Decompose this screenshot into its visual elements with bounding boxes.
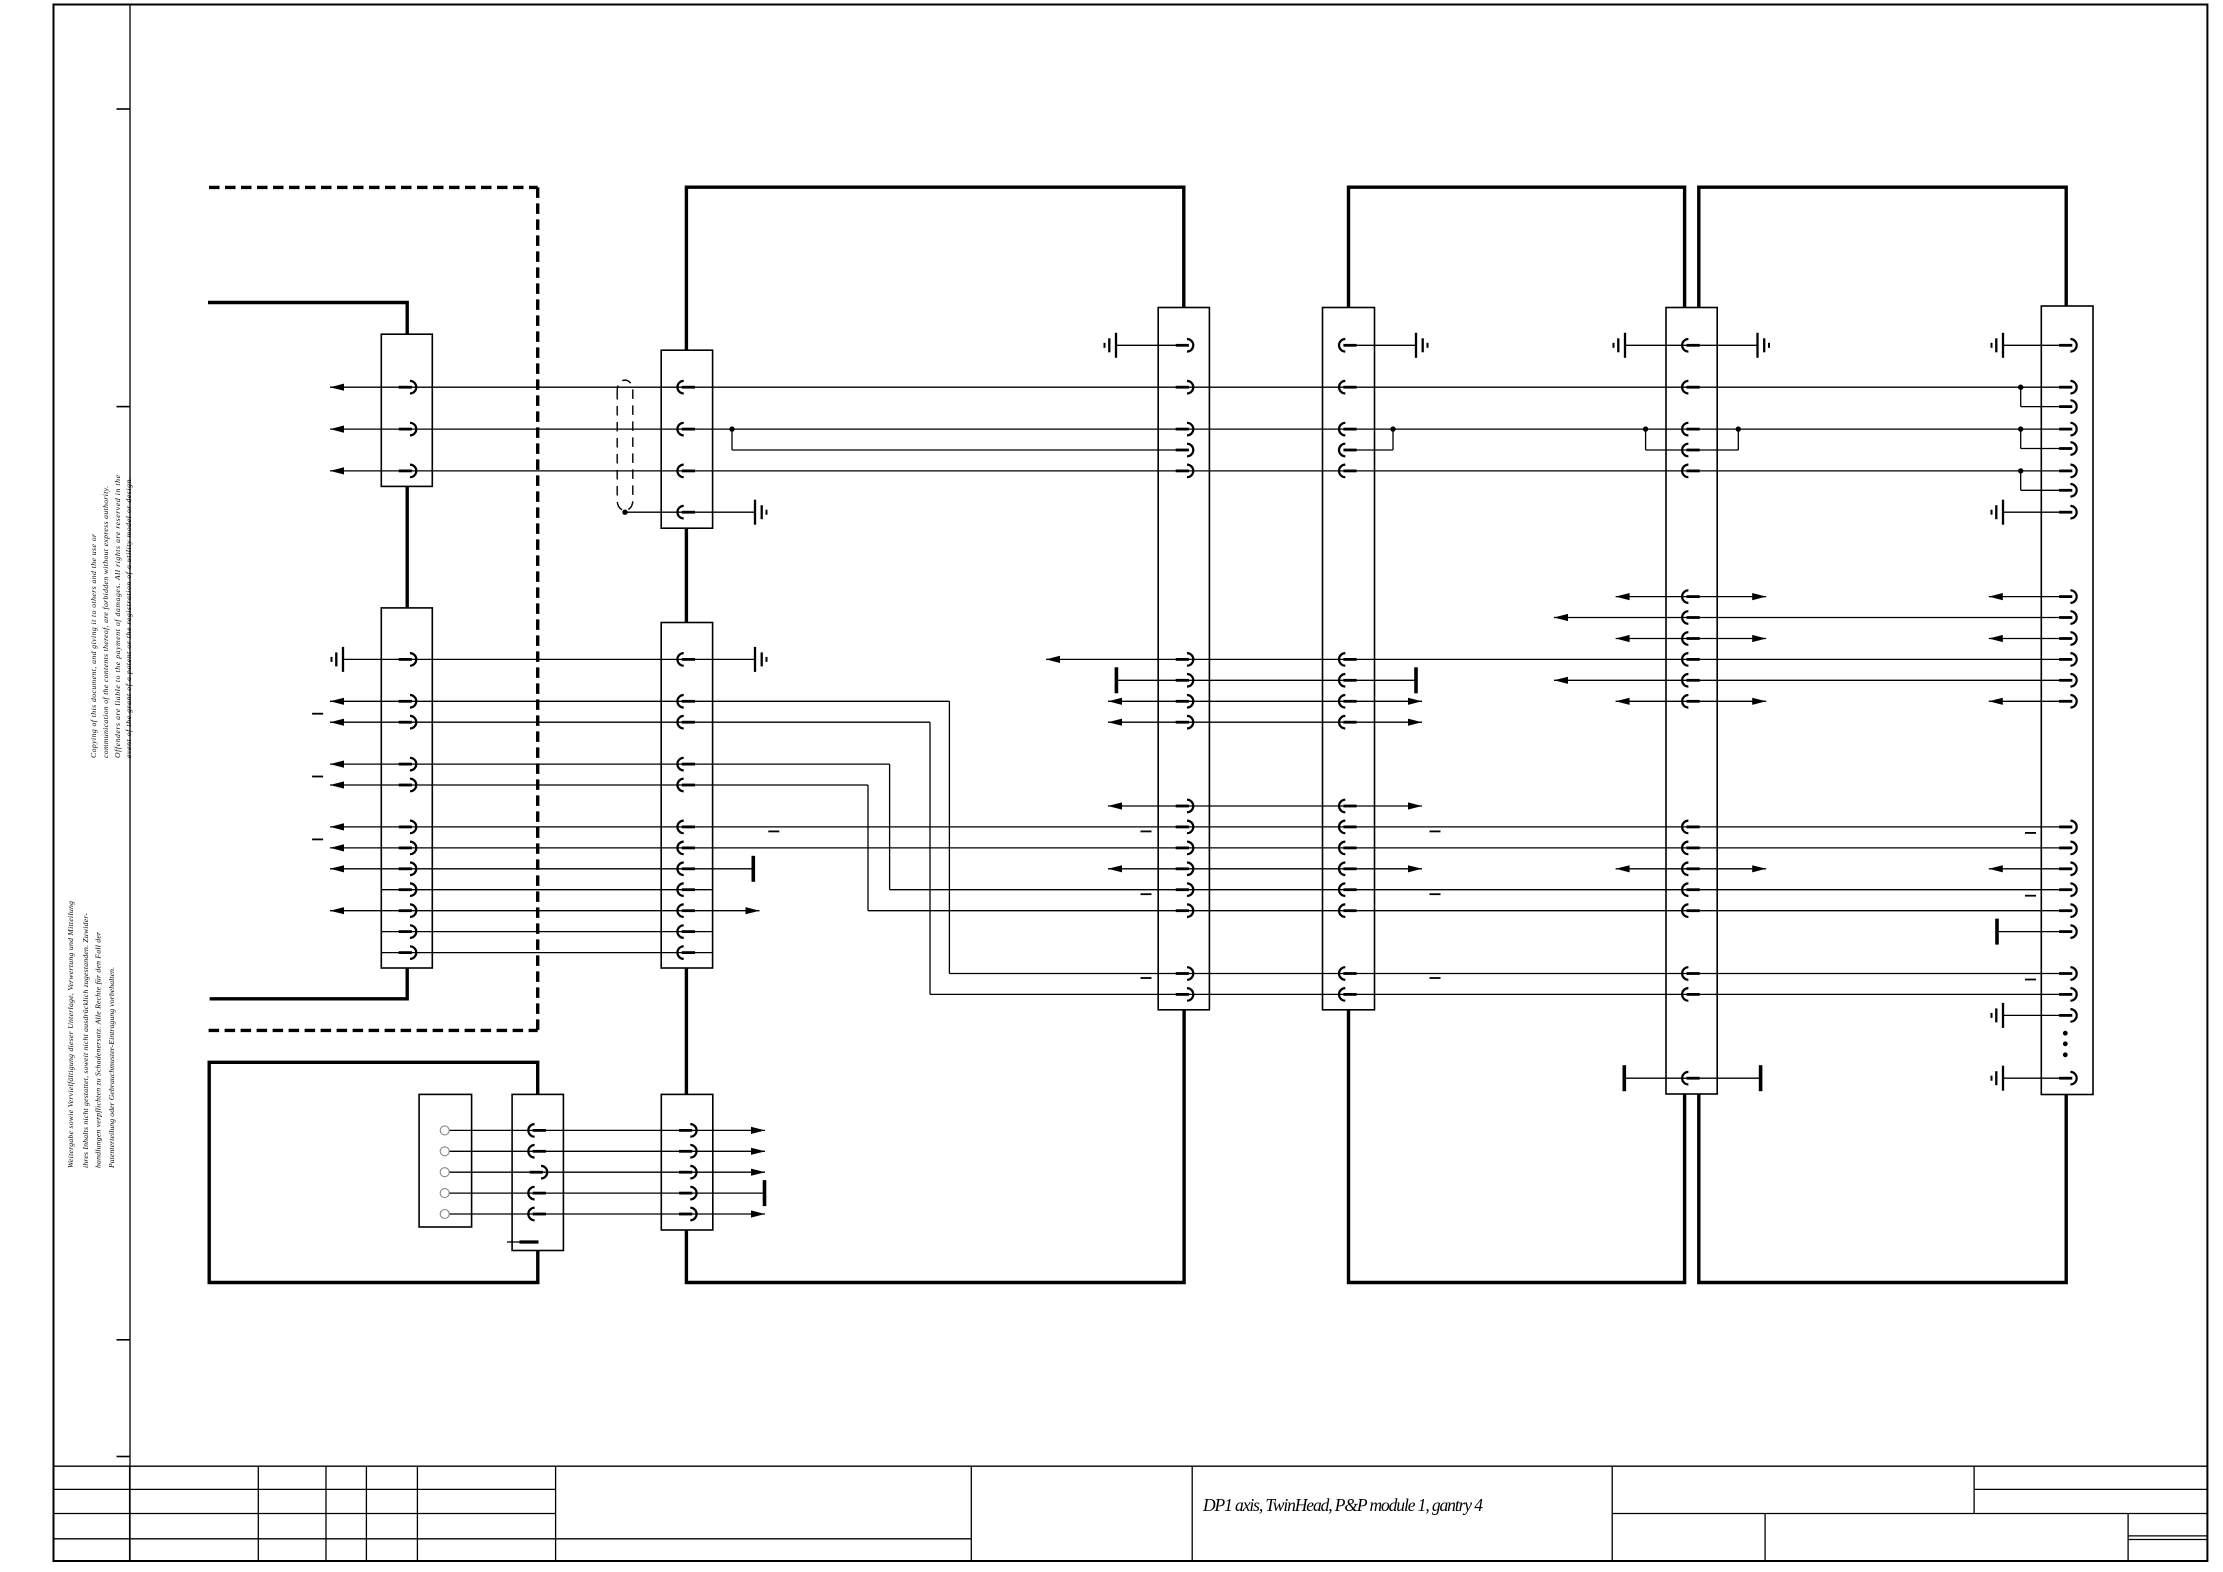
B1 pin 4 xyxy=(677,506,695,519)
D pin 8 xyxy=(1339,695,1357,708)
cable: column A bottom stub xyxy=(210,968,408,999)
wire E pin8 bidirectional xyxy=(1616,638,1767,640)
A2 pin 5 xyxy=(399,779,417,792)
A2 pin 12 xyxy=(399,946,417,959)
E pin 15 xyxy=(1682,883,1700,896)
left margin column line xyxy=(129,5,131,1562)
svg-text:Offenders are liable to the pa: Offenders are liable to the payment of d… xyxy=(113,474,122,758)
E pin 7 xyxy=(1682,611,1700,624)
svg-text:Weitergabe sowie Vervielfältig: Weitergabe sowie Vervielfältigung dieser… xyxy=(66,901,75,1168)
G pin 11 xyxy=(2059,632,2077,645)
arrow G row 638 xyxy=(1989,635,2003,642)
H pin 4 xyxy=(528,1187,546,1200)
D pin 2 xyxy=(1339,381,1357,394)
D pin 16 xyxy=(1339,967,1357,980)
C pin 1 xyxy=(1176,339,1194,352)
D pin 10 xyxy=(1339,800,1357,813)
C pin 13 xyxy=(1176,863,1194,876)
dashed enclosure bottom xyxy=(209,1029,538,1032)
arrow C row 869 xyxy=(1108,865,1122,872)
B2 pin 6 xyxy=(677,821,695,834)
PE ground A2.1 xyxy=(332,647,344,672)
branch to G pin5 xyxy=(2020,429,2022,448)
margin fold tick y=1456.5 xyxy=(117,1456,131,1458)
junction E branch right xyxy=(1736,426,1741,431)
wire G pin11 xyxy=(1989,638,2067,640)
wire tag row 827 xyxy=(2025,832,2036,834)
connector B2 (X2 lower) xyxy=(661,623,712,969)
G pin 3 xyxy=(2059,400,2077,413)
junction D branch xyxy=(1390,426,1395,431)
connector B1 (X2 upper) xyxy=(661,350,712,528)
H pin 5 xyxy=(528,1208,546,1221)
B2 pin 11 xyxy=(677,925,695,938)
PE ground G25 xyxy=(1992,1066,2004,1091)
wire valve wire 3 (I-H-J) xyxy=(449,1171,765,1173)
arrow A2 row 785 xyxy=(330,781,344,788)
A2 pin 8 xyxy=(399,863,417,876)
arrow G row 869 xyxy=(1989,865,2003,872)
E pin 9 xyxy=(1682,653,1700,666)
A2 pin 7 xyxy=(399,842,417,855)
wire net 24V row R2 (A1-B1-C-D-E-G) xyxy=(330,386,2067,388)
E pin 14 xyxy=(1682,863,1700,876)
H pin 2 xyxy=(528,1145,546,1158)
margin fold tick y=1339.8 xyxy=(117,1339,131,1341)
C pin 4 xyxy=(1176,444,1194,457)
arrow E right row 869 xyxy=(1752,865,1766,872)
connector J (X8) xyxy=(661,1094,713,1230)
arrow C6 out xyxy=(1046,656,1060,663)
arrow J row 1130 xyxy=(751,1127,765,1134)
A2 pin 6 xyxy=(399,821,417,834)
connector A1 (X1 upper) xyxy=(381,334,432,486)
PE ground E1 left xyxy=(1614,333,1626,358)
B2 pin 1 xyxy=(677,653,695,666)
branch to G pin3 xyxy=(2020,387,2022,406)
wire valve wire 2 (I-H-J) xyxy=(449,1150,765,1152)
wire A2.11-B2.11 xyxy=(381,931,712,933)
connector G (X6) xyxy=(2041,306,2093,1095)
B1 pin 3 xyxy=(677,465,695,478)
wire C8-D8 xyxy=(1108,700,1422,702)
H pin 1 xyxy=(528,1124,546,1137)
cable: stub to PLC (top-left thick line) xyxy=(208,303,407,335)
margin fold tick y=406.6 xyxy=(117,406,131,408)
C pin 17 xyxy=(1176,988,1194,1001)
C pin 14 xyxy=(1176,883,1194,896)
arrow G row 597 xyxy=(1989,593,2003,600)
D pin 12 xyxy=(1339,842,1357,855)
A2 pin 1 xyxy=(399,653,417,666)
B2 pin 2 xyxy=(677,695,695,708)
E pin 8 xyxy=(1682,632,1700,645)
B2 pin 5 xyxy=(677,779,695,792)
D pin 13 xyxy=(1339,863,1357,876)
wire E14 xyxy=(1616,868,1767,870)
cable: column B between B1 and B2 xyxy=(685,528,688,622)
B2 pin 8 xyxy=(677,863,695,876)
A1 pin 1 xyxy=(399,381,417,394)
svg-text:Patenterteilung oder Gebrauchm: Patenterteilung oder Gebrauchmuster-Eint… xyxy=(107,967,116,1169)
B2 pin 9 xyxy=(677,883,695,896)
svg-text:event of the grant of a patent: event of the grant of a patent or the re… xyxy=(124,477,133,758)
G pin 15 xyxy=(2059,821,2077,834)
wire C10-D10 xyxy=(1108,805,1422,807)
arrow D row 869 xyxy=(1408,865,1422,872)
wire E pin6 bidirectional xyxy=(1616,596,1767,598)
arrow A2 row 701 xyxy=(330,698,344,705)
connector H (X7) xyxy=(512,1094,563,1250)
arrow G row 701 xyxy=(1989,698,2003,705)
valve coil circle 3 xyxy=(440,1168,449,1177)
cap bar right of D7 xyxy=(1414,667,1418,693)
arrow A1 row 429 xyxy=(330,426,344,433)
cap bar B2.8 xyxy=(751,856,755,882)
arrow A2 row 911 xyxy=(330,907,344,914)
arrow A2 row 848 xyxy=(330,844,344,851)
A2 pin 11 xyxy=(399,925,417,938)
E pin 1 xyxy=(1682,339,1700,352)
reroute wire B2.3 down to row24 xyxy=(929,722,931,994)
C pin 3 xyxy=(1176,423,1194,436)
G pin 22 xyxy=(2059,988,2077,1001)
D pin 4 xyxy=(1339,444,1357,457)
wire A2.2-B2.2 xyxy=(330,700,949,702)
continuation dot xyxy=(2063,1031,2068,1036)
C pin 10 xyxy=(1176,800,1194,813)
J pin 4 xyxy=(679,1187,697,1200)
arrow A2 row 827 xyxy=(330,823,344,830)
G pin 7 xyxy=(2059,484,2077,497)
A2 pin 9 xyxy=(399,883,417,896)
PE ground D1 xyxy=(1416,333,1428,358)
svg-text:DP1 axis, TwinHead, P&P module: DP1 axis, TwinHead, P&P module 1, gantry… xyxy=(1202,1495,1483,1515)
cap bar right of E19 xyxy=(1759,1065,1763,1091)
reroute wire B2.5 down to row20 xyxy=(867,785,869,911)
A2 pin 2 xyxy=(399,695,417,708)
wire E19 between cap bars xyxy=(1624,1077,1760,1079)
wire C15-D14-E16-G19 xyxy=(868,910,2067,912)
E pin 13 xyxy=(1682,842,1700,855)
C pin 11 xyxy=(1176,821,1194,834)
wire G23 to PE xyxy=(2003,1014,2067,1016)
G pin 13 xyxy=(2059,674,2077,687)
C pin 12 xyxy=(1176,842,1194,855)
wire G pin9 xyxy=(1989,596,2067,598)
wire net row R3 (A1-B1-C-D-E-G) xyxy=(330,428,2067,430)
C pin 7 xyxy=(1176,674,1194,687)
arrow E long row 618 xyxy=(1554,614,1568,621)
J pin 1 xyxy=(679,1124,697,1137)
wire valve wire 1 (I-H-J) xyxy=(449,1129,765,1131)
arrow E left row 869 xyxy=(1616,865,1630,872)
D pin 5 xyxy=(1339,465,1357,478)
G pin 9 xyxy=(2059,590,2077,603)
wire G17 xyxy=(1989,868,2067,870)
cable loop B to C (top) xyxy=(686,187,1183,350)
arrow D row 701 xyxy=(1408,698,1422,705)
C pin 5 xyxy=(1176,465,1194,478)
G pin 5 xyxy=(2059,442,2077,455)
H shield bar xyxy=(520,1240,539,1243)
B2 pin 7 xyxy=(677,842,695,855)
cap bar G20 xyxy=(1995,919,1999,945)
arrow D row 722 xyxy=(1408,719,1422,726)
C pin 6 xyxy=(1176,653,1194,666)
D pin 6 xyxy=(1339,653,1357,666)
arrow A2 row 722 xyxy=(330,719,344,726)
G pin 24 xyxy=(2059,1072,2077,1085)
thick box around bottom-left unit xyxy=(209,1062,538,1282)
arrow E left row 701 xyxy=(1616,698,1630,705)
E pin 11 xyxy=(1682,695,1700,708)
PE ground E1 right xyxy=(1758,333,1770,358)
C pin 16 xyxy=(1176,967,1194,980)
PE ground G8 xyxy=(1992,500,2004,525)
cap bar left of E19 xyxy=(1623,1065,1627,1091)
G pin 8 xyxy=(2059,506,2077,519)
arrow A2 row 869 xyxy=(330,865,344,872)
wire A2.12-B2.12 xyxy=(381,952,712,954)
reroute wire B2.4 down to row19 xyxy=(889,764,891,890)
wire tag row 848 xyxy=(312,838,323,840)
J pin 2 xyxy=(679,1145,697,1158)
wire G1.1 to PE xyxy=(2003,344,2067,346)
E pin 4 xyxy=(1682,444,1700,457)
arrow A1 row 471 xyxy=(330,467,344,474)
svg-text:ihres Inhalts nicht gestattet,: ihres Inhalts nicht gestattet, soweit ni… xyxy=(81,913,90,1168)
arrow D row 806 xyxy=(1408,802,1422,809)
B2 pin 12 xyxy=(677,946,695,959)
dashed enclosure (gantry boundary) top xyxy=(209,186,538,189)
G pin 17 xyxy=(2059,863,2077,876)
E pin 19 xyxy=(1682,1072,1700,1085)
svg-text:handlungen verpflichten zu Sch: handlungen verpflichten zu Schadenersatz… xyxy=(94,931,103,1168)
wire A2.6-B2.6-C12-D11-E12-G15 xyxy=(330,826,2067,828)
G pin 10 xyxy=(2059,611,2077,624)
terminal block I (valve coils) xyxy=(419,1094,472,1227)
wire tag row 722 xyxy=(312,713,323,715)
E pin 6 xyxy=(1682,590,1700,603)
arrow E right row 638 xyxy=(1752,635,1766,642)
G pin 6 xyxy=(2059,465,2077,478)
E pin 3 xyxy=(1682,423,1700,436)
cable loop E to G (top) xyxy=(1699,187,2066,307)
connector E (X5) xyxy=(1666,308,1717,1095)
PE ground G1 xyxy=(1992,333,2004,358)
G pin 4 xyxy=(2059,423,2077,436)
PE ground shield B1.4 xyxy=(755,500,767,525)
valve coil circle 2 xyxy=(440,1147,449,1156)
B1 pin 2 xyxy=(677,423,695,436)
arrow E long row 680 xyxy=(1554,677,1568,684)
wire A2.8-B2.8 to cap bar xyxy=(330,868,753,870)
wire B2.3 rerouted to C17-D17-E18-G22 xyxy=(930,993,2067,995)
D pin 9 xyxy=(1339,716,1357,729)
wire A2.3-B2.3 xyxy=(330,721,930,723)
wire tag xyxy=(768,830,779,832)
wire A2.10-B2.10 xyxy=(330,910,760,912)
wire tag row 890 xyxy=(1141,893,1152,895)
wire tag row 890 xyxy=(1430,893,1441,895)
valve coil circle 4 xyxy=(440,1189,449,1198)
G pin 20 xyxy=(2059,925,2077,938)
wire C9-D9 xyxy=(1108,721,1422,723)
wire E11 xyxy=(1616,700,1767,702)
wire tag row 890 xyxy=(2025,895,2036,897)
C pin 2 xyxy=(1176,381,1194,394)
cable loop D to E (top) xyxy=(1349,187,1685,307)
junction B1.2 branch xyxy=(729,426,734,431)
wire tag row 974 xyxy=(1430,977,1441,979)
G pin 23 xyxy=(2059,1009,2077,1022)
valve coil circle 5 xyxy=(440,1210,449,1219)
wire G25 to PE xyxy=(2003,1077,2067,1079)
E pin 5 xyxy=(1682,465,1700,478)
arrow J row 1172 xyxy=(751,1169,765,1176)
C pin 9 xyxy=(1176,716,1194,729)
G pin 14 xyxy=(2059,695,2077,708)
cable: column B B2 down to J xyxy=(685,968,688,1094)
wire C14-D13-E15-G18 xyxy=(890,889,2068,891)
wire G14 xyxy=(1989,700,2067,702)
wire tag row 974 xyxy=(1141,977,1152,979)
wire valve wire 5 (I-H-J) xyxy=(449,1213,765,1215)
arrow E right row 701 xyxy=(1752,698,1766,705)
D pin 1 xyxy=(1339,339,1357,352)
junction G branch 2 xyxy=(2018,426,2023,431)
A2 pin 10 xyxy=(399,904,417,917)
junction E branch left xyxy=(1643,426,1648,431)
margin fold tick y=109 xyxy=(117,108,131,110)
valve coil circle 1 xyxy=(440,1126,449,1135)
junction shield oval xyxy=(622,510,627,515)
wire E pin7 - G pin10 xyxy=(1554,617,2067,619)
A2 pin 4 xyxy=(399,758,417,771)
D pin 11 xyxy=(1339,821,1357,834)
arrow E left row 597 xyxy=(1616,593,1630,600)
wire net row R4 (A1-B1-C-D-E-G) xyxy=(330,470,2067,472)
G pin 16 xyxy=(2059,842,2077,855)
D pin 3 xyxy=(1339,423,1357,436)
G pin 21 xyxy=(2059,967,2077,980)
wire cable shield to PE (B1.4) xyxy=(625,511,755,513)
J pin 3 xyxy=(679,1166,697,1179)
branch to G pin7 xyxy=(2020,471,2022,490)
arrow E right row 597 xyxy=(1752,593,1766,600)
wire A2.7-B2.7-C13-D12-E13-G16 xyxy=(330,847,2067,849)
arrow A1 row 387 xyxy=(330,384,344,391)
cap bar left of C7 xyxy=(1115,667,1119,693)
G pin 19 xyxy=(2059,904,2077,917)
D pin 17 xyxy=(1339,988,1357,1001)
A2 pin 3 xyxy=(399,716,417,729)
B1 pin 1 xyxy=(677,381,695,394)
svg-text:Copying of this document, and: Copying of this document, and giving it … xyxy=(89,533,98,758)
C pin 8 xyxy=(1176,695,1194,708)
junction G branch 3 xyxy=(2018,468,2023,473)
wire E1.1 PE-PE xyxy=(1625,344,1758,346)
wire C7-D7 between T bars xyxy=(1116,679,1416,681)
connector A2 (X1 lower) xyxy=(381,608,432,968)
arrow J row 1151 xyxy=(751,1148,765,1155)
cable loop D to E (bottom) xyxy=(1349,1010,1685,1283)
D pin 14 xyxy=(1339,883,1357,896)
connector D (X4) xyxy=(1323,308,1375,1010)
wire tag row 785 xyxy=(312,776,323,778)
C pin 15 xyxy=(1176,904,1194,917)
wire tag row 827 xyxy=(1141,830,1152,832)
branch to C pin4 xyxy=(731,429,733,450)
branch through E pin4 xyxy=(1645,429,1647,450)
PE ground B2.1 xyxy=(755,647,767,672)
wire C1.1 to PE xyxy=(1116,344,1184,346)
cable loop J to C (bottom) xyxy=(686,1010,1184,1283)
wire C6-D6-E9-G12 xyxy=(1046,658,2067,660)
E pin 10 xyxy=(1682,674,1700,687)
H pin 3 xyxy=(530,1166,548,1179)
cable: X1 column A between connectors xyxy=(406,486,409,608)
wire B2.2 rerouted to C16-D16-E17-G21 xyxy=(949,973,2067,975)
dashed enclosure right xyxy=(536,187,539,1030)
wire C-D row18 xyxy=(1108,868,1422,870)
wire A2.5-B2.5 xyxy=(330,784,868,786)
E pin 12 xyxy=(1682,821,1700,834)
arrow A2 row 764 xyxy=(330,761,344,768)
wire A2.1-B2.1 shield xyxy=(343,658,755,660)
D pin 7 xyxy=(1339,674,1357,687)
title block table xyxy=(54,1465,2208,1467)
continuation dot xyxy=(2063,1052,2068,1057)
G pin 1 xyxy=(2059,339,2077,352)
wire tag row 827 xyxy=(1430,830,1441,832)
branch to D pin4 xyxy=(1392,429,1394,450)
arrow B2.10 out xyxy=(746,907,760,914)
B2 pin 4 xyxy=(677,758,695,771)
B2 pin 3 xyxy=(677,716,695,729)
E pin 17 xyxy=(1682,967,1700,980)
cable loop G to E (bottom) xyxy=(1699,1094,2066,1283)
reroute wire B2.2 down to row23 xyxy=(948,701,950,973)
svg-text:communication of the contents: communication of the contents thereof, a… xyxy=(101,486,110,758)
J pin 5 xyxy=(679,1208,697,1221)
A1 pin 2 xyxy=(399,423,417,436)
G pin 12 xyxy=(2059,653,2077,666)
cable shield oval xyxy=(617,380,633,510)
wire G20 to cap bar xyxy=(1997,931,2067,933)
continuation dot xyxy=(2063,1041,2068,1046)
wire A2.4-B2.4 xyxy=(330,763,890,765)
junction G branch 1 xyxy=(2018,385,2023,390)
arrow E left row 638 xyxy=(1616,635,1630,642)
PE ground C1 xyxy=(1105,333,1117,358)
arrow C row 722 xyxy=(1108,719,1122,726)
wire D1.1 to PE xyxy=(1349,344,1417,346)
wire E10-G13 xyxy=(1554,679,2067,681)
A1 pin 3 xyxy=(399,465,417,478)
PE ground G23 xyxy=(1992,1003,2004,1028)
E pin 2 xyxy=(1682,381,1700,394)
B2 pin 10 xyxy=(677,904,695,917)
connector C (X3) xyxy=(1158,308,1209,1010)
D pin 15 xyxy=(1339,904,1357,917)
wire tag row 974 xyxy=(2025,979,2036,981)
cap bar J4 xyxy=(763,1180,767,1206)
G pin 2 xyxy=(2059,381,2077,394)
arrow C row 806 xyxy=(1108,802,1122,809)
G pin 18 xyxy=(2059,883,2077,896)
